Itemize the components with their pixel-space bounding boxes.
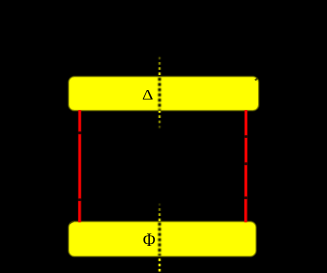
svg-text:Φ: Φ	[143, 229, 156, 250]
axis dashes above top plate : glow	[158, 57, 161, 78]
axis dashes above top plate : core	[159, 57, 161, 78]
axis dashes above bottom plate : core	[159, 203, 161, 222]
plate P1 corner notch (top-right artifact)	[255, 78, 258, 81]
axis dashes below bottom plate : glow	[158, 259, 161, 272]
red line L pinch shadow 2	[78, 199, 82, 201]
plate P2 soft edge	[69, 222, 255, 256]
axis dashes across plate P1 (dark)	[158, 78, 161, 110]
red line R core segment 2	[245, 138, 247, 162]
plate P1 (top, yellow)	[69, 77, 258, 110]
red line R pinch shadow 1	[244, 135, 248, 137]
svg-text:Δ: Δ	[142, 86, 153, 103]
red line L glow	[78, 110, 82, 222]
plate P1 soft edge	[69, 77, 258, 110]
plate P2 (bottom, yellow)	[69, 222, 255, 256]
red line L pinch shadow 1	[78, 132, 82, 135]
axis dashes below top plate : glow	[158, 111, 161, 130]
axis dashes across plate P2 (dark)	[158, 223, 161, 256]
axis dashes below bottom plate : core	[159, 259, 161, 272]
red line R pinch shadow 2 (faint)	[244, 163, 248, 166]
axis dashes below top plate : core	[159, 111, 161, 130]
plate P2 halo	[69, 222, 255, 256]
red line R pinch shadow 3	[244, 197, 248, 199]
red line R core segment 4	[244, 199, 246, 222]
red line L core segment 3	[78, 201, 80, 222]
axis dashes above bottom plate : glow	[158, 203, 161, 222]
red line L core segment 1	[79, 110, 81, 131]
plate P2 corner notch (top-left artifact)	[70, 221, 74, 223]
plate P1 halo	[69, 77, 258, 110]
red line L core segment 2	[79, 134, 81, 198]
red line R core segment 1	[245, 110, 247, 135]
red line R core segment 3	[245, 165, 247, 196]
red line R glow	[244, 110, 248, 222]
